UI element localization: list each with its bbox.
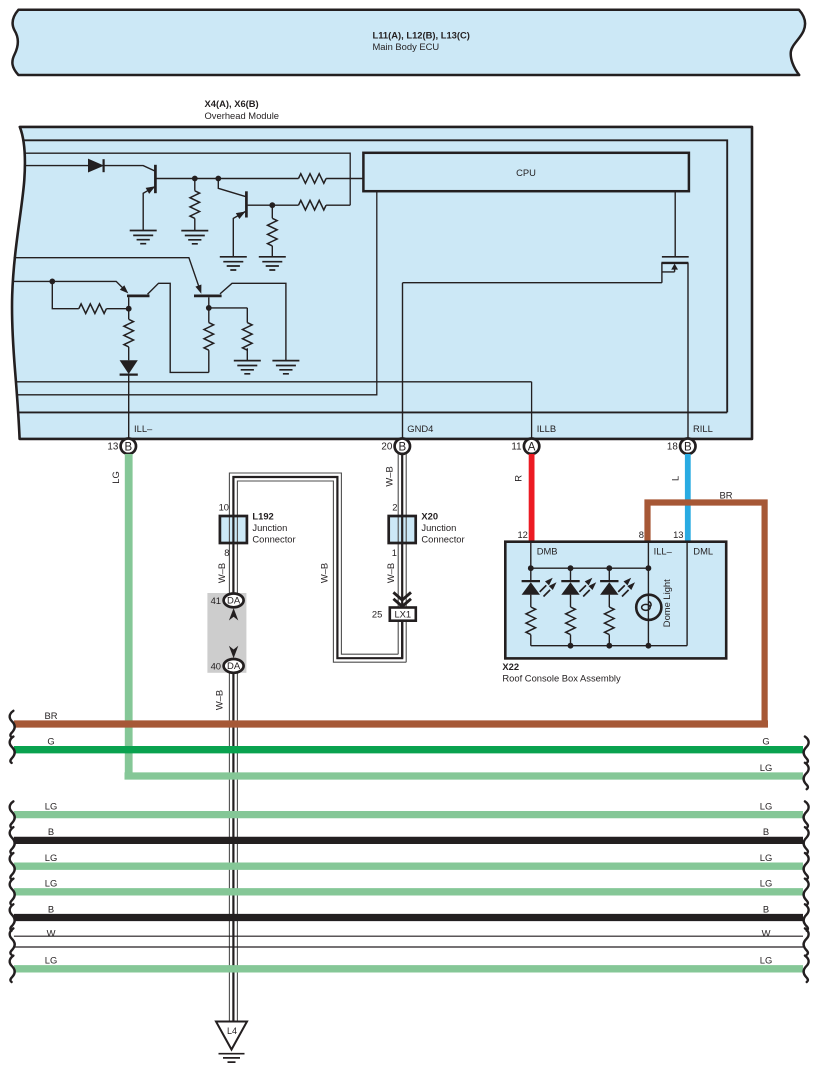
svg-text:L4: L4 bbox=[227, 1026, 237, 1036]
svg-text:20: 20 bbox=[381, 442, 392, 453]
svg-text:L11(A), L12(B), L13(C): L11(A), L12(B), L13(C) bbox=[373, 29, 470, 40]
svg-text:11: 11 bbox=[511, 442, 521, 453]
svg-text:25: 25 bbox=[372, 609, 382, 620]
svg-text:W–B: W–B bbox=[216, 563, 227, 583]
svg-text:B: B bbox=[763, 826, 769, 837]
svg-text:LG: LG bbox=[760, 762, 773, 773]
svg-text:Overhead Module: Overhead Module bbox=[205, 110, 280, 121]
svg-text:12: 12 bbox=[517, 529, 527, 540]
svg-text:ILLB: ILLB bbox=[537, 423, 556, 434]
svg-text:A: A bbox=[528, 441, 536, 453]
svg-text:LG: LG bbox=[45, 852, 58, 863]
svg-text:W: W bbox=[47, 927, 56, 938]
svg-text:8: 8 bbox=[639, 529, 644, 540]
svg-text:X4(A), X6(B): X4(A), X6(B) bbox=[205, 98, 259, 109]
svg-text:ILL–: ILL– bbox=[134, 423, 153, 434]
svg-text:L: L bbox=[670, 476, 681, 481]
svg-text:1: 1 bbox=[392, 547, 397, 558]
svg-text:B: B bbox=[48, 903, 54, 914]
svg-text:40: 40 bbox=[211, 661, 221, 672]
svg-text:W–B: W–B bbox=[214, 690, 225, 710]
svg-text:LG: LG bbox=[45, 955, 58, 966]
svg-text:10: 10 bbox=[219, 502, 229, 513]
svg-text:X22: X22 bbox=[502, 661, 519, 672]
svg-text:Roof Console Box Assembly: Roof Console Box Assembly bbox=[502, 672, 621, 683]
svg-text:LG: LG bbox=[760, 852, 773, 863]
svg-text:Junction: Junction bbox=[252, 522, 287, 533]
svg-text:LG: LG bbox=[45, 878, 58, 889]
svg-text:ILL–: ILL– bbox=[654, 546, 673, 557]
svg-text:BR: BR bbox=[720, 490, 733, 501]
svg-text:13: 13 bbox=[673, 529, 683, 540]
svg-text:B: B bbox=[763, 903, 769, 914]
svg-text:Connector: Connector bbox=[421, 534, 464, 545]
svg-text:G: G bbox=[762, 736, 769, 747]
svg-text:GND4: GND4 bbox=[407, 423, 433, 434]
svg-text:LX1: LX1 bbox=[394, 609, 411, 620]
svg-text:BR: BR bbox=[44, 710, 57, 721]
svg-text:W: W bbox=[762, 927, 771, 938]
svg-text:2: 2 bbox=[392, 502, 397, 513]
svg-text:B: B bbox=[684, 441, 692, 453]
svg-text:L192: L192 bbox=[252, 511, 273, 522]
svg-text:R: R bbox=[513, 475, 524, 482]
svg-text:LG: LG bbox=[760, 800, 773, 811]
svg-text:B: B bbox=[124, 441, 132, 453]
svg-text:CPU: CPU bbox=[516, 167, 536, 178]
svg-text:LG: LG bbox=[760, 878, 773, 889]
svg-text:DA: DA bbox=[227, 596, 241, 607]
svg-text:W–B: W–B bbox=[385, 563, 396, 583]
svg-text:LG: LG bbox=[110, 471, 121, 484]
svg-text:DMB: DMB bbox=[537, 546, 558, 557]
svg-text:X20: X20 bbox=[421, 511, 438, 522]
svg-text:B: B bbox=[48, 826, 54, 837]
svg-text:DML: DML bbox=[693, 546, 713, 557]
svg-text:41: 41 bbox=[211, 595, 221, 606]
svg-text:13: 13 bbox=[107, 442, 118, 453]
svg-text:Dome Light: Dome Light bbox=[661, 579, 672, 627]
svg-text:Connector: Connector bbox=[252, 534, 295, 545]
svg-text:LG: LG bbox=[760, 955, 773, 966]
svg-text:B: B bbox=[398, 441, 406, 453]
svg-text:18: 18 bbox=[667, 442, 678, 453]
svg-text:Junction: Junction bbox=[421, 522, 456, 533]
svg-text:LG: LG bbox=[45, 800, 58, 811]
svg-text:W–B: W–B bbox=[319, 563, 330, 583]
svg-text:Main Body ECU: Main Body ECU bbox=[373, 41, 440, 52]
svg-text:G: G bbox=[47, 736, 54, 747]
svg-text:DA: DA bbox=[227, 661, 241, 672]
svg-text:RILL: RILL bbox=[693, 423, 713, 434]
svg-text:8: 8 bbox=[224, 547, 229, 558]
svg-text:W–B: W–B bbox=[383, 466, 394, 486]
